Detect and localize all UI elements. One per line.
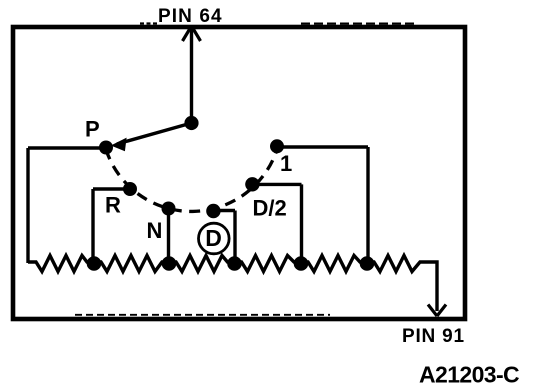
- circled D position marker: [199, 223, 230, 254]
- wire D/2 contact horizontal: [252, 183, 301, 186]
- wire D/2 vertical drop: [300, 184, 303, 263]
- node ladder tap N: [162, 256, 177, 271]
- wiper arm (junction to P contact): [117, 123, 192, 144]
- svg-text:PIN 91: PIN 91: [402, 326, 465, 347]
- wire D contact horizontal: [213, 209, 235, 212]
- svg-text:1: 1: [280, 151, 292, 176]
- scan noise ticks left of PIN 64: [140, 22, 157, 24]
- arrowhead into PIN 91: [428, 305, 446, 317]
- node R contact: [123, 182, 137, 196]
- svg-text:PIN 64: PIN 64: [158, 6, 223, 27]
- scan noise ticks above bottom border: [75, 314, 330, 316]
- enclosure border box: [13, 27, 465, 319]
- node P contact: [99, 141, 113, 155]
- node ladder tap R: [87, 256, 102, 271]
- node 1 contact: [270, 139, 284, 153]
- svg-text:A21203-C: A21203-C: [419, 362, 519, 388]
- node D/2 contact: [245, 177, 259, 191]
- resistor ladder (zigzag chain) with output lead: [28, 256, 437, 312]
- node junction (wiper pivot): [184, 116, 198, 130]
- arrowhead of wiper at P: [112, 139, 126, 151]
- scan noise ticks above top border: [301, 23, 418, 25]
- svg-text:N: N: [147, 218, 163, 243]
- node ladder tap 1: [360, 256, 375, 271]
- node ladder tap D: [227, 256, 242, 271]
- wire D vertical drop: [233, 211, 236, 264]
- svg-text:P: P: [85, 117, 100, 142]
- arrowhead into PIN 64: [183, 26, 201, 41]
- node N contact: [162, 202, 176, 216]
- wire N vertical drop: [167, 209, 170, 264]
- svg-text:D/2: D/2: [253, 196, 287, 221]
- wire R contact horizontal: [93, 187, 130, 190]
- node D contact: [206, 204, 220, 218]
- wire 1 contact horizontal: [277, 145, 368, 148]
- dashed wiper path arc through contacts: [106, 147, 278, 212]
- svg-text:R: R: [105, 193, 121, 218]
- wire left vertical drop to resistor ladder: [26, 148, 29, 263]
- node ladder tap D/2: [294, 256, 309, 271]
- wire P contact to left drop: [28, 146, 106, 149]
- wire R vertical drop: [91, 189, 94, 264]
- wire 1 vertical drop: [366, 147, 369, 264]
- svg-text:D: D: [205, 225, 222, 251]
- wire PIN 64 lead (vertical from junction to top border): [190, 29, 193, 123]
